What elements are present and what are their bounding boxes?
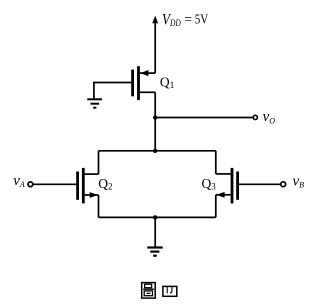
Q2 drain lead: [85, 173, 99, 175]
svg-text:DD: DD: [169, 19, 181, 29]
wire left source drop: [98, 195, 100, 217]
label VDD = 5V: [162, 12, 209, 29]
transistor Q1 channel bar: [137, 66, 140, 100]
wire top drain rail: [99, 150, 216, 152]
transistor Q1 (PMOS load) gate bar: [131, 70, 134, 97]
svg-text:=: =: [184, 12, 192, 27]
Q2 source lead with NMOS arrow: [85, 192, 99, 198]
Q3 gate lead wire: [239, 183, 280, 185]
wire output to vO terminal: [155, 117, 253, 119]
terminal circle vO: [253, 115, 257, 119]
node vO junction dot: [153, 115, 157, 119]
Q3 source lead with NMOS arrow: [216, 192, 231, 198]
Q1 gate lead wire: [94, 83, 131, 99]
VDD supply arrow: [152, 16, 158, 74]
wire right source drop: [215, 195, 217, 218]
caption character 圖: [142, 283, 156, 299]
terminal circle vB: [281, 182, 286, 187]
transistor Q3 gate bar: [236, 172, 239, 200]
Q1 drain lead: [140, 91, 155, 93]
node: top drain rail junction dot: [153, 149, 157, 153]
svg-text:Q2: Q2: [98, 176, 112, 192]
svg-text:vB: vB: [293, 173, 305, 189]
svg-text:Q3: Q3: [202, 176, 217, 192]
svg-text:Q1: Q1: [160, 75, 175, 91]
ground (Q1 gate): [87, 99, 102, 107]
Q2 gate lead wire: [34, 183, 77, 185]
terminal circle vA: [28, 182, 33, 187]
svg-text:5V: 5V: [195, 12, 209, 27]
Q1 source lead with PMOS arrow: [140, 70, 155, 76]
svg-text:vO: vO: [263, 109, 276, 125]
svg-text:vA: vA: [13, 173, 25, 189]
transistor Q2 channel bar: [82, 168, 85, 204]
wire bottom source rail: [99, 216, 216, 218]
wire right drain drop: [215, 151, 217, 174]
wire left drain drop: [98, 151, 100, 174]
Q3 drain lead: [216, 173, 231, 175]
caption character 四: [163, 286, 177, 296]
transistor Q2 gate bar: [76, 172, 79, 200]
wire Q1 drain to output node: [154, 92, 156, 151]
node: bottom rail junction dot: [153, 215, 157, 219]
transistor Q3 channel bar: [231, 168, 234, 204]
ground (sources): [147, 248, 162, 256]
wire to ground: [154, 217, 156, 246]
